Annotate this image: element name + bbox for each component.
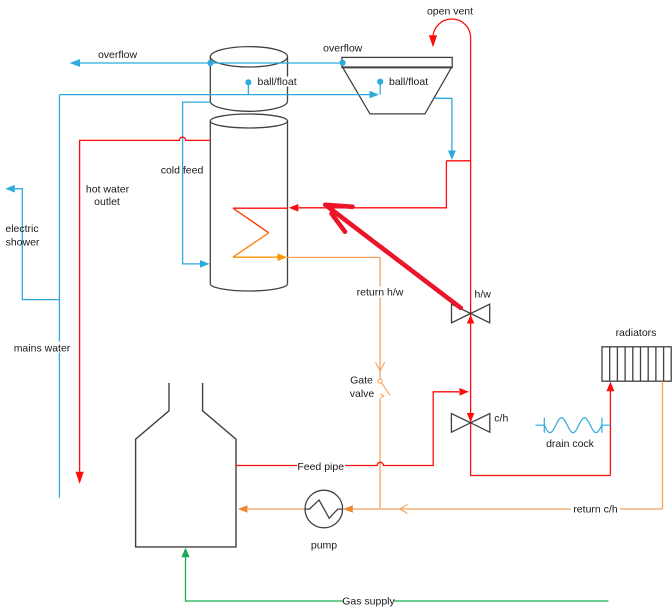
- svg-text:c/h: c/h: [494, 413, 508, 425]
- svg-text:return c/h: return c/h: [573, 504, 618, 516]
- mains water pipe to ball valves: [59, 91, 379, 99]
- flow arrow into c/h valve: [467, 413, 475, 422]
- feed pipe: [236, 388, 469, 466]
- cold feed from f/e tank: [434, 98, 456, 160]
- label Feed pipe: [297, 461, 345, 473]
- return h/w pipe: [287, 257, 380, 509]
- svg-text:radiators: radiators: [616, 327, 657, 339]
- thick annotation arrow: [325, 205, 461, 308]
- svg-text:mains water: mains water: [14, 343, 71, 355]
- mains water riser: [58, 95, 60, 498]
- svg-text:cold feed: cold feed: [161, 165, 204, 177]
- pump outlet pipe to boiler: [238, 505, 305, 513]
- gas supply pipe: [181, 548, 608, 601]
- feed/expansion tank: [342, 57, 452, 114]
- svg-text:shower: shower: [6, 237, 40, 249]
- svg-text:Feed pipe: Feed pipe: [297, 461, 344, 473]
- boiler: [136, 383, 236, 547]
- label return h/w: [354, 287, 407, 299]
- electric shower branch: [5, 185, 59, 300]
- hot water cylinder: [210, 114, 287, 291]
- svg-text:h/w: h/w: [475, 289, 492, 301]
- heating coil in cylinder: [233, 208, 288, 257]
- overflow pipe: [70, 59, 346, 67]
- cold feed pipe to cylinder: [183, 102, 211, 268]
- label return c/h: [571, 504, 620, 516]
- ball/float in f/e tank: [377, 79, 383, 95]
- flow chevron on return h/w: [376, 362, 385, 371]
- return c/h pipe from radiator: [343, 381, 662, 513]
- svg-text:open vent: open vent: [427, 6, 473, 18]
- label ball/float storage tank: [257, 76, 298, 88]
- radiators: [602, 347, 671, 381]
- pump: [305, 490, 343, 528]
- svg-text:Gate: Gate: [350, 375, 373, 387]
- gate valve: [378, 379, 390, 398]
- svg-text:hot water: hot water: [86, 184, 130, 196]
- valve c/h: [451, 414, 489, 433]
- flow arrow into h/w valve: [467, 315, 475, 324]
- open vent pipe: [429, 19, 611, 476]
- cold water storage tank: [210, 47, 287, 112]
- svg-text:electric: electric: [5, 223, 38, 235]
- vent/cylinder connection step: [289, 161, 471, 212]
- label Gas supply: [342, 596, 395, 608]
- drain cock: [536, 418, 611, 433]
- svg-text:valve: valve: [350, 388, 375, 400]
- hot water outlet pipe: [76, 137, 211, 484]
- label mains water: [13, 342, 71, 355]
- svg-text:Gas supply: Gas supply: [342, 596, 395, 608]
- svg-text:ball/float: ball/float: [258, 76, 297, 88]
- svg-text:drain cock: drain cock: [546, 438, 595, 450]
- ball/float in storage tank: [245, 79, 251, 94]
- svg-text:outlet: outlet: [94, 196, 120, 208]
- svg-text:overflow: overflow: [323, 43, 363, 55]
- svg-text:overflow: overflow: [98, 49, 138, 61]
- svg-text:return h/w: return h/w: [357, 287, 404, 299]
- svg-text:ball/float: ball/float: [389, 76, 428, 88]
- svg-text:pump: pump: [311, 540, 337, 552]
- radiator feed pipe: [606, 382, 614, 476]
- valve h/w: [452, 304, 490, 323]
